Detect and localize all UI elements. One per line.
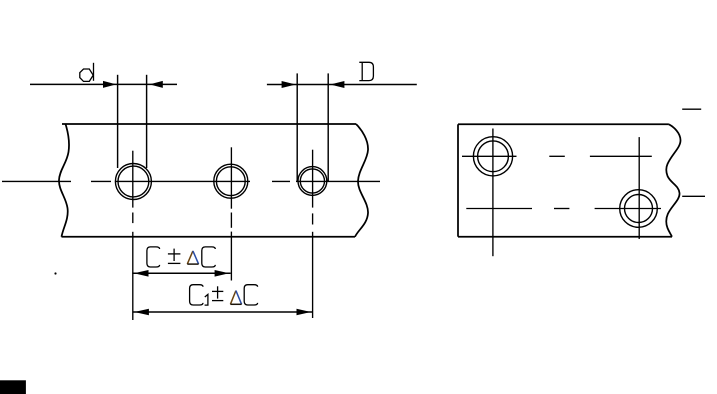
dimension d line [30, 83, 177, 85]
plate lower row centerline segment 2 [595, 208, 661, 210]
dimension D line [267, 84, 417, 86]
hole 1 vertical centerline upper segment [132, 151, 134, 208]
plate upper hole inner circle [478, 141, 509, 172]
label d [80, 63, 94, 82]
hole 2 vertical centerline dash [230, 213, 232, 228]
plate lower hole outer circle [620, 190, 658, 228]
dimension d right arrow [150, 81, 163, 88]
detached centerline dash mid right [682, 195, 705, 197]
plate upper row centerline segment 2 [590, 155, 652, 157]
strip bottom edge [62, 236, 356, 238]
plate upper hole outer circle [473, 137, 512, 176]
plate left edge [457, 124, 459, 236]
dimension D right arrow [330, 81, 344, 88]
dimension D right extension line [327, 73, 329, 182]
plate bottom edge [458, 236, 672, 238]
hole 1 inner circle [118, 166, 149, 197]
dimension d left arrow [103, 81, 116, 88]
strip horizontal centerline dash 4 [272, 180, 290, 182]
strip right break line [355, 124, 368, 237]
dimension C1 right arrow [297, 309, 311, 316]
hole 2 inner circle [216, 167, 245, 196]
dimension D left arrow [282, 81, 296, 88]
hole 2 vertical centerline upper segment [230, 147, 232, 208]
dimension C left arrow [134, 270, 149, 277]
hole 3 outer circle [298, 167, 327, 196]
strip horizontal centerline segment 1 [2, 180, 71, 182]
hole 3 vertical centerline upper segment [312, 150, 314, 208]
dimension D left extension line [296, 73, 298, 182]
strip horizontal centerline segment 5 through hole 3 [296, 180, 380, 182]
label C +/- delta C [147, 247, 215, 267]
dimension C line [132, 272, 230, 274]
dimension d right extension line [146, 75, 148, 168]
label C1 +/- delta C [190, 285, 258, 305]
hole 3 inner circle [300, 169, 324, 193]
hole 3 vertical centerline lower segment / extension line [312, 232, 314, 318]
dimension C1 left arrow [134, 309, 149, 316]
dimension d left extension line [117, 75, 119, 168]
detached centerline dash top right [682, 108, 701, 110]
black rectangle bottom left [0, 380, 26, 394]
hole 1 vertical centerline dash [132, 213, 134, 224]
plate upper row centerline segment 1 [462, 155, 517, 157]
plate top edge [458, 123, 669, 125]
plate lower hole inner circle [625, 195, 653, 223]
dimension C1 line [133, 311, 313, 313]
hole 1 outer circle [115, 164, 151, 200]
strip horizontal centerline dash 2 [91, 180, 111, 182]
strip top edge [62, 123, 356, 125]
plate lower row centerline dash [554, 208, 569, 210]
plate upper row centerline dash [549, 155, 565, 157]
plate lower hole vertical centerline [638, 137, 640, 239]
hole 2 vertical centerline lower segment / extension line [230, 232, 232, 281]
label D [359, 62, 373, 80]
plate upper hole vertical centerline [492, 129, 494, 257]
strip left break line [59, 124, 69, 237]
hole 2 outer circle [214, 164, 248, 198]
hole 3 vertical centerline dash [312, 213, 314, 224]
plate lower row centerline segment 1 [466, 208, 532, 210]
stray dot [54, 272, 56, 274]
strip horizontal centerline segment 3 through holes 1 and 2 [116, 180, 250, 182]
hole 1 vertical centerline lower segment / extension line [132, 232, 134, 320]
dimension C right arrow [215, 270, 230, 277]
plate right break line [666, 124, 680, 236]
